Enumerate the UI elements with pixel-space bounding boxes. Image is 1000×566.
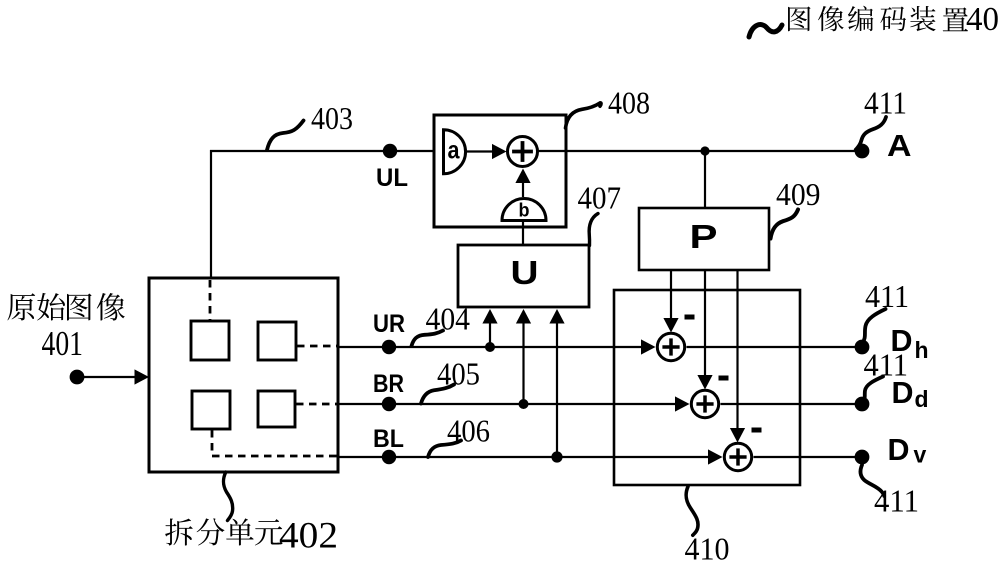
svg-text:405: 405 [437, 356, 480, 392]
svg-text:A: A [887, 128, 912, 163]
svg-text:UR: UR [373, 310, 405, 338]
svg-text:407: 407 [578, 180, 622, 216]
svg-text:BL: BL [373, 425, 404, 453]
svg-text:40: 40 [966, 1, 999, 38]
svg-text:v: v [914, 442, 927, 468]
svg-text:D: D [888, 432, 910, 467]
svg-text:h: h [915, 337, 929, 363]
svg-text:401: 401 [42, 324, 84, 363]
svg-text:404: 404 [426, 301, 471, 337]
svg-text:409: 409 [776, 176, 821, 212]
svg-text:411: 411 [864, 347, 909, 383]
svg-text:U: U [511, 254, 539, 291]
svg-text:BR: BR [373, 370, 404, 398]
svg-text:a: a [448, 137, 461, 165]
svg-text:b: b [519, 201, 530, 222]
svg-text:P: P [690, 218, 718, 255]
svg-text:408: 408 [608, 85, 650, 121]
svg-text:UL: UL [376, 164, 408, 192]
svg-text:411: 411 [874, 483, 919, 519]
svg-text:403: 403 [311, 100, 353, 136]
svg-text:402: 402 [279, 516, 338, 557]
svg-text:d: d [915, 386, 929, 412]
svg-text:411: 411 [864, 85, 907, 121]
